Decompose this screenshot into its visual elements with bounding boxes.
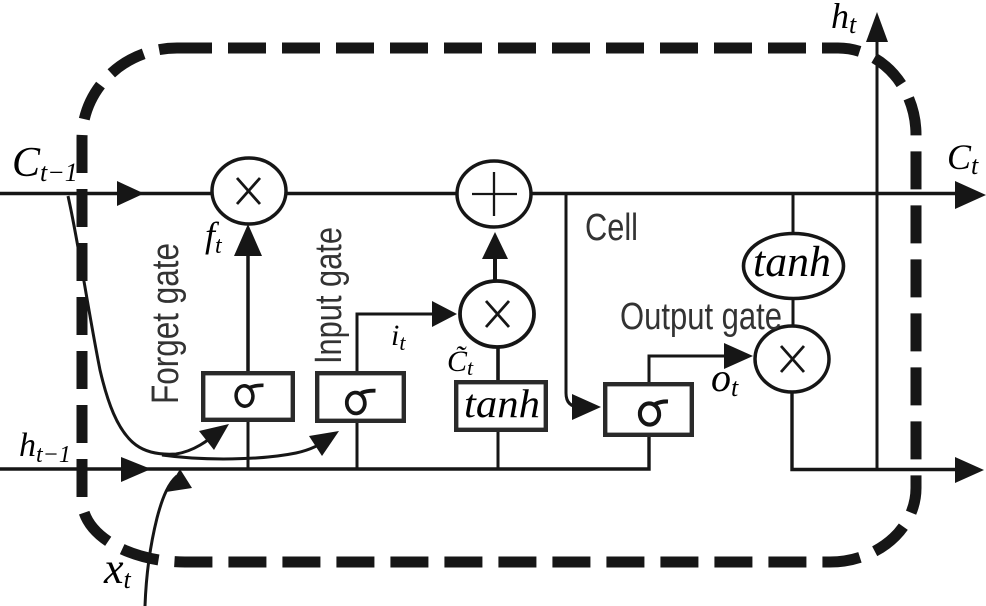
multiply circle: output (755, 326, 829, 392)
arrowhead ot into output multiply (724, 343, 753, 369)
wire: tanh ellipse down to output multiply (792, 297, 795, 327)
wire: tanh box up to candidate multiply (496, 347, 500, 380)
arrowhead on cell-state line (left) (117, 181, 144, 206)
arrowhead: ht exit (bottom right) (955, 457, 984, 483)
svg-text:Output gate: Output gate (620, 296, 782, 338)
wire: output sigma up and right to output multiply (ot) (649, 356, 727, 382)
sigma box: output gate (605, 384, 692, 435)
tanh ellipse (744, 234, 844, 299)
cell boundary dashed rounded rectangle (82, 48, 916, 562)
wire: tanh box down to hidden line (497, 432, 500, 468)
sigma box: forget gate (203, 373, 293, 420)
arrowhead into forget gate sigma (199, 424, 229, 450)
wire: candidate multiply up to plus (493, 256, 497, 281)
svg-text:tanh: tanh (464, 381, 540, 426)
wire: input gate to candidate multiply (it) (357, 314, 434, 371)
curve: input from Ct-1 line down to gates (68, 196, 220, 454)
svg-text:Forget gate: Forget gate (145, 243, 187, 404)
wire: forget gate output up to multiply (246, 252, 250, 371)
wire: output ht segment to the right with arrowhead (792, 392, 972, 470)
arrowhead: Ct exit (right) (955, 181, 986, 209)
arrowhead ft into multiply circle (234, 224, 262, 256)
plus circle: cell update (457, 161, 531, 227)
sigma box: input gate (317, 373, 404, 421)
wire: forget sigma down to hidden line (247, 422, 250, 468)
wire: input sigma down to hidden line (356, 423, 359, 468)
wire: hidden-state line (bottom horizontal, left part) (0, 437, 649, 469)
wire: cell-state line (top horizontal) (0, 192, 974, 195)
arrowhead into input gate sigma (309, 431, 339, 456)
arrowhead it into multiply circle (432, 301, 457, 327)
arrowhead on hidden-state line (121, 457, 151, 482)
arrowhead into plus circle (482, 232, 508, 259)
wire: ht branch up to top output (876, 40, 879, 469)
svg-text:Cell: Cell (585, 207, 638, 249)
tanh box: candidate (456, 381, 546, 430)
wire: cell branch down to output sigma (566, 194, 580, 407)
svg-text:tanh: tanh (753, 239, 831, 286)
svg-text:Input gate: Input gate (308, 227, 350, 364)
arrowhead: ht top exit (866, 12, 888, 42)
multiply circle: candidate (460, 281, 534, 347)
wire: cell line down to tanh ellipse (792, 194, 795, 235)
curve: xt input from bottom (145, 476, 177, 606)
multiply circle: forget (212, 158, 286, 224)
arrowhead: xt into hidden line (166, 469, 192, 492)
arrowhead into output sigma (572, 394, 601, 420)
curve: branch to input gate sigma (162, 437, 330, 459)
